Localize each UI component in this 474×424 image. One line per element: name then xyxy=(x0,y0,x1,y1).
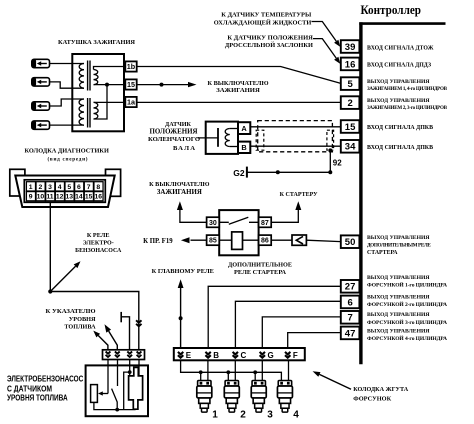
junction dot shield/G2 xyxy=(328,170,332,174)
relay pin 87 xyxy=(259,217,272,227)
wire: pin A to controller pin 15 xyxy=(250,126,340,128)
injector 3 xyxy=(251,381,266,413)
svg-text:КОЛЕНЧАТОГО: КОЛЕНЧАТОГО xyxy=(148,136,200,143)
sensor core xyxy=(217,128,219,147)
svg-text:3: 3 xyxy=(267,410,273,421)
svg-text:ДОПОЛНИТЕЛЬНОЕ: ДОПОЛНИТЕЛЬНОЕ xyxy=(228,261,292,268)
svg-text:ЗАЖИГАНИЯ: ЗАЖИГАНИЯ xyxy=(216,87,260,94)
wire: pump pin 3 down xyxy=(129,360,131,376)
svg-text:УРОВНЯ ТОПЛИВА: УРОВНЯ ТОПЛИВА xyxy=(7,394,68,403)
svg-text:ЗАЖИГАНИЯ: ЗАЖИГАНИЯ xyxy=(157,189,202,196)
wire: resistor bottom to common xyxy=(94,402,136,409)
coil T1 core 2 xyxy=(88,98,90,128)
svg-text:ДАТЧИК: ДАТЧИК xyxy=(165,122,192,128)
ground G2 bar xyxy=(246,167,248,178)
svg-text:ЭЛЕКТРОБЕНЗОНАСОС: ЭЛЕКТРОБЕНЗОНАСОС xyxy=(7,375,84,384)
label: выход управления дополнительным реле стартера (pin 50) xyxy=(367,235,431,256)
svg-text:8: 8 xyxy=(96,184,100,191)
svg-text:87: 87 xyxy=(261,220,269,227)
spark plug 1 xyxy=(32,59,50,67)
wire: sensor coil to pin A xyxy=(230,128,238,130)
wire: secondary 2 top to pin 1a xyxy=(94,101,126,103)
rail terminal B xyxy=(205,351,219,360)
wire: terminal bar to pump connector xyxy=(121,317,129,350)
diagnostic pin 6 xyxy=(75,182,84,191)
svg-text:11: 11 xyxy=(46,194,53,201)
injector 4 xyxy=(277,381,292,413)
wire: secondary 1 bottom to pin 15 xyxy=(94,84,126,86)
svg-text:К ПР. F19: К ПР. F19 xyxy=(143,238,173,245)
wire: controller pin 6 to rail C xyxy=(235,301,340,348)
spark plug 4 xyxy=(32,121,50,129)
svg-text:86: 86 xyxy=(261,238,269,245)
pump connector chevron 4 xyxy=(137,352,142,358)
svg-text:C: C xyxy=(241,351,247,360)
svg-text:12: 12 xyxy=(56,194,64,201)
junction dot on main relay wire xyxy=(179,316,183,320)
diagnostic connector pin grid frame xyxy=(24,180,105,203)
rail terminal C xyxy=(233,351,247,360)
svg-text:7: 7 xyxy=(347,313,352,324)
arrowhead up to starter xyxy=(295,201,301,210)
controller pin 7 xyxy=(341,311,360,324)
label: к реле электробензонасоса xyxy=(75,232,122,254)
controller pin 50 xyxy=(341,235,360,248)
svg-text:A: A xyxy=(241,124,247,133)
svg-text:ФОРСУНКОЙ 4-го ЦИЛИНДРА: ФОРСУНКОЙ 4-го ЦИЛИНДРА xyxy=(367,334,447,342)
svg-text:ВХОД СИГНАЛА ДПДЗ: ВХОД СИГНАЛА ДПДЗ xyxy=(367,63,431,69)
fuel pump module box xyxy=(86,365,148,416)
wire: relay pin 86 to connector xyxy=(271,239,292,241)
arrow: fuel gauge wire 2 xyxy=(105,324,118,350)
junction dot on 15 wire xyxy=(160,83,164,87)
svg-text:ВХОД СИГНАЛА ДПКВ: ВХОД СИГНАЛА ДПКВ xyxy=(367,125,433,131)
wire: junction to fuel pump connector xyxy=(50,292,139,350)
svg-text:1b: 1b xyxy=(127,62,136,71)
wire: diagnostic pin 11 down to junction xyxy=(49,202,51,291)
svg-text:СТАРТЕРА: СТАРТЕРА xyxy=(367,250,398,256)
svg-text:6: 6 xyxy=(347,297,352,308)
label: к датчику температуры охлаждающей жидкости xyxy=(214,11,312,26)
svg-text:5: 5 xyxy=(347,79,353,90)
label: выход управления зажиганием 1,4 (pin 5) xyxy=(367,79,448,92)
junction dot pump feed xyxy=(128,370,132,374)
coil T1 secondary winding 2 xyxy=(94,102,99,119)
wire: plug 2 to primary winding 1 xyxy=(50,82,85,88)
shield end cap left (dashed) xyxy=(256,130,264,150)
relay pin 86 xyxy=(259,235,272,245)
level sensor resistor R xyxy=(91,385,98,403)
starter relay K1 box xyxy=(219,210,258,255)
coil T1 core 1 xyxy=(88,61,90,91)
arrowhead to F19 xyxy=(181,237,190,243)
diagnostic connector XS1 left ear xyxy=(10,169,25,196)
svg-text:3: 3 xyxy=(48,184,52,191)
svg-text:ВЫХОД УПРАВЛЕНИЯ: ВЫХОД УПРАВЛЕНИЯ xyxy=(367,79,430,85)
sensor lead stub xyxy=(198,137,219,139)
svg-text:E: E xyxy=(186,351,192,360)
svg-text:7: 7 xyxy=(87,184,91,191)
svg-text:G: G xyxy=(268,351,274,360)
arrowhead up to ignition switch xyxy=(177,201,183,210)
sensor pin A xyxy=(238,122,250,134)
arrow: fuel gauge wire 1 xyxy=(93,331,108,350)
controller U1 top boundary line xyxy=(359,22,445,25)
ignition coil box xyxy=(72,54,124,131)
svg-text:ПОЛОЖЕНИЯ: ПОЛОЖЕНИЯ xyxy=(150,128,198,135)
svg-text:ВЫХОД УПРАВЛЕНИЯ: ВЫХОД УПРАВЛЕНИЯ xyxy=(367,275,430,281)
svg-text:ФОРСУНКОЙ 3-го ЦИЛИНДРА: ФОРСУНКОЙ 3-го ЦИЛИНДРА xyxy=(367,318,447,326)
wire: bus to injector 2 left pin xyxy=(227,372,229,381)
controller pin 15 xyxy=(341,120,360,133)
spark plug 3 xyxy=(32,102,50,110)
svg-text:К УКАЗАТЕЛЮ: К УКАЗАТЕЛЮ xyxy=(46,308,96,315)
svg-text:1: 1 xyxy=(212,410,218,421)
coil pin 15 xyxy=(125,79,136,89)
svg-text:ВЫХОД УПРАВЛЕНИЯ: ВЫХОД УПРАВЛЕНИЯ xyxy=(367,312,430,318)
diagnostic pin 7 xyxy=(84,182,93,191)
label: выход управления зажиганием 2,3 (pin 2) xyxy=(367,98,448,111)
svg-text:ДРОССЕЛЬНОЙ ЗАСЛОНКИ: ДРОССЕЛЬНОЙ ЗАСЛОНКИ xyxy=(225,41,313,49)
wire: rail C to injector 2 right pin xyxy=(234,360,236,381)
arrowhead to fuel pump relay xyxy=(74,261,81,268)
svg-text:С ДАТЧИКОМ: С ДАТЧИКОМ xyxy=(7,385,52,394)
svg-text:ЭЛЕКТРО-: ЭЛЕКТРО- xyxy=(83,241,114,247)
rail terminal E xyxy=(178,351,192,360)
controller pin 2 xyxy=(341,96,360,109)
svg-text:ВЫХОД УПРАВЛЕНИЯ: ВЫХОД УПРАВЛЕНИЯ xyxy=(367,294,430,300)
label: к выключателю зажигания (top) xyxy=(208,80,269,94)
diagnostic pin 2 xyxy=(36,182,45,191)
svg-text:15: 15 xyxy=(85,194,93,201)
wire: rail G to injector 3 right pin xyxy=(261,360,263,381)
label: выход управления форсункой 4-го цилиндра (pin 47) xyxy=(367,329,447,343)
svg-text:РЕЛЕ СТАРТЕРА: РЕЛЕ СТАРТЕРА xyxy=(234,269,286,276)
label: выход управления форсункой 1-го цилиндра (pin 27) xyxy=(367,275,447,289)
svg-text:УРОВНЯ: УРОВНЯ xyxy=(69,316,96,323)
diagnostic pin 8 xyxy=(94,182,103,191)
svg-text:ФОРСУНОК: ФОРСУНОК xyxy=(353,395,391,402)
controller pin 16 xyxy=(341,58,360,71)
svg-text:БЕНЗОНАСОСА: БЕНЗОНАСОСА xyxy=(75,248,122,254)
svg-text:ВХОД СИГНАЛА ДПКВ: ВХОД СИГНАЛА ДПКВ xyxy=(367,145,433,151)
wire: rail E common bus xyxy=(181,360,282,381)
svg-text:15: 15 xyxy=(345,122,356,133)
svg-text:Контроллер: Контроллер xyxy=(361,3,422,17)
coil T1 primary winding 1 xyxy=(79,64,84,89)
svg-text:14: 14 xyxy=(75,194,83,201)
relay contact 30-87 xyxy=(219,217,258,224)
svg-text:ВЫХОД УПРАВЛЕНИЯ: ВЫХОД УПРАВЛЕНИЯ xyxy=(367,98,430,104)
svg-text:B: B xyxy=(241,143,246,152)
svg-text:ВЫХОД УПРАВЛЕНИЯ: ВЫХОД УПРАВЛЕНИЯ xyxy=(367,235,430,241)
svg-text:ОХЛАЖДАЮЩЕЙ ЖИДКОСТИ: ОХЛАЖДАЮЩЕЙ ЖИДКОСТИ xyxy=(214,18,312,26)
junction dot common xyxy=(115,408,119,412)
svg-text:ДОПОЛНИТЕЛЬНЫМ РЕЛЕ: ДОПОЛНИТЕЛЬНЫМ РЕЛЕ xyxy=(367,243,431,249)
junction dot shield drain xyxy=(328,148,332,152)
svg-text:ВАЛА: ВАЛА xyxy=(173,145,195,152)
diagnostic pin 12 xyxy=(55,192,64,201)
svg-text:13: 13 xyxy=(66,194,74,201)
svg-text:G2: G2 xyxy=(233,168,245,178)
coil T1 secondary winding 1 xyxy=(94,70,99,85)
inline connector symbol xyxy=(292,235,306,245)
svg-text:6: 6 xyxy=(77,184,81,191)
wire: relay pin 87 to starter xyxy=(271,209,298,223)
svg-text:92: 92 xyxy=(333,159,342,168)
svg-text:К ГЛАВНОМУ РЕЛЕ: К ГЛАВНОМУ РЕЛЕ xyxy=(152,268,214,275)
diagnostic pin 3 xyxy=(46,182,55,191)
diagnostic pin 9 xyxy=(26,192,35,201)
relay pin 85 xyxy=(207,235,220,245)
crankshaft sensor B1 box xyxy=(206,122,238,154)
label: колодка жгута форсунок xyxy=(353,387,409,403)
wire: coil 15 to ignition switch xyxy=(137,84,189,86)
label: выход управления форсункой 2-го цилиндра (pin 6) xyxy=(367,294,447,308)
diagnostic pin 10 xyxy=(36,192,45,201)
svg-text:85: 85 xyxy=(209,238,217,245)
diagnostic pin 14 xyxy=(75,192,84,201)
injector 1 xyxy=(197,381,212,413)
wire: rail B to injector 1 right pin xyxy=(207,360,209,381)
wire: shield drain to ground G2 xyxy=(329,150,331,172)
wire: plug 1 to primary winding 1 xyxy=(50,63,85,65)
diagnostic pin 16 xyxy=(94,192,103,201)
wire: pump pin 2 to switch xyxy=(117,360,119,387)
controller pin 39 xyxy=(341,40,360,53)
label: к указателю уровня топлива xyxy=(46,308,97,331)
svg-text:27: 27 xyxy=(345,282,356,293)
open terminal bar (fuel gauge sender) xyxy=(120,312,122,322)
svg-text:ФОРСУНКОЙ 2-го ЦИЛИНДРА: ФОРСУНКОЙ 2-го ЦИЛИНДРА xyxy=(367,300,447,308)
wire: coolant sensor label to pin 39 xyxy=(312,22,337,42)
wire: pump pin 1 into module xyxy=(107,360,109,394)
wire: controller pin 7 to rail G xyxy=(262,317,341,348)
label: выход управления форсункой 3-го цилиндра (pin 7) xyxy=(367,312,447,326)
svg-text:50: 50 xyxy=(345,237,356,248)
junction dot diagnostic/fuel-pump node xyxy=(48,289,52,293)
controller U1 left boundary line xyxy=(359,22,362,364)
diagnostic pin 4 xyxy=(55,182,64,191)
coil pin 1b xyxy=(125,61,136,71)
svg-text:1a: 1a xyxy=(127,98,136,107)
wire: pump pin 4 down xyxy=(138,360,140,376)
label: датчик положения коленчатого вала xyxy=(148,122,200,152)
coil pin 1a xyxy=(125,97,136,107)
controller pin 5 xyxy=(341,77,360,90)
injector 2 xyxy=(224,381,239,413)
svg-text:К ВЫКЛЮЧАТЕЛЮ: К ВЫКЛЮЧАТЕЛЮ xyxy=(149,181,209,188)
wire: relay pin 30 to ignition switch xyxy=(180,209,207,223)
rail terminal G xyxy=(260,351,274,360)
spark plug 2 xyxy=(32,78,50,86)
svg-text:(вид спереди): (вид спереди) xyxy=(48,156,88,163)
svg-text:30: 30 xyxy=(209,220,217,227)
svg-text:ФОРСУНКОЙ 1-го ЦИЛИНДРА: ФОРСУНКОЙ 1-го ЦИЛИНДРА xyxy=(367,281,447,289)
svg-text:16: 16 xyxy=(94,194,102,201)
junction dot injector 3 feed xyxy=(253,370,257,374)
wire: junction to fuel pump relay xyxy=(50,266,75,291)
svg-text:15: 15 xyxy=(127,80,135,89)
svg-text:2: 2 xyxy=(347,98,352,109)
pump connector chevron 3 xyxy=(127,352,132,358)
wire: coil 1b to controller pin 5 xyxy=(137,67,341,84)
diagnostic connector XS1 body xyxy=(15,176,114,208)
svg-text:F: F xyxy=(293,351,298,360)
svg-text:1: 1 xyxy=(29,184,33,191)
injector harness connector strip xyxy=(174,348,305,360)
controller pin 47 xyxy=(341,327,360,340)
svg-text:5: 5 xyxy=(67,184,71,191)
wire: secondary 2 bottom to junction xyxy=(94,85,108,119)
relay pin 30 xyxy=(207,217,220,227)
arrowhead up to main relay xyxy=(178,279,184,288)
svg-text:B: B xyxy=(213,351,219,360)
wire: sensor coil to pin B xyxy=(230,146,238,148)
svg-text:К РЕЛЕ: К РЕЛЕ xyxy=(87,232,110,239)
wire: plug 4 to primary winding 2 xyxy=(50,124,85,126)
wire: relay pin 85 to F19 xyxy=(191,239,207,241)
pump connector chevron 1 xyxy=(106,352,111,358)
label: дополнительное реле стартера xyxy=(228,261,292,276)
diagnostic pin 11 xyxy=(46,192,55,201)
wire: coil 1a to controller pin 2 xyxy=(137,101,341,103)
sensor coil winding xyxy=(225,129,230,147)
controller pin 6 xyxy=(341,296,360,309)
rail terminal F xyxy=(285,351,298,360)
junction dot on G2 wire xyxy=(276,170,280,174)
svg-text:16: 16 xyxy=(345,59,356,70)
svg-text:К ДАТЧИКУ ПОЛОЖЕНИЯ: К ДАТЧИКУ ПОЛОЖЕНИЯ xyxy=(227,34,313,41)
svg-text:ВХОД СИГНАЛА ДТОЖ: ВХОД СИГНАЛА ДТОЖ xyxy=(367,45,434,51)
diagnostic connector XS1 right ear xyxy=(106,169,121,196)
label: к датчику положения дроссельной заслонки xyxy=(225,34,313,49)
svg-text:К СТАРТЕРУ: К СТАРТЕРУ xyxy=(280,192,319,198)
wire: main relay to injector rail E xyxy=(180,287,182,350)
label: к выключателю зажигания (lower) xyxy=(149,181,209,196)
svg-text:9: 9 xyxy=(29,194,33,201)
diagnostic pin 15 xyxy=(84,192,93,201)
fuel pump motor M xyxy=(129,367,143,409)
svg-text:47: 47 xyxy=(345,328,356,339)
wire: pump feed to common xyxy=(124,372,130,410)
wire: bus to injector 3 left pin xyxy=(254,372,256,381)
pump connector chevron 2 xyxy=(115,352,120,358)
wire: G2 to shield xyxy=(247,171,330,173)
svg-text:34: 34 xyxy=(345,142,356,153)
svg-text:4: 4 xyxy=(293,410,299,421)
controller pin 34 xyxy=(341,140,360,153)
fuel pump connector strip xyxy=(103,350,145,360)
wire: connector to controller pin 50 xyxy=(306,240,340,241)
wire: controller pin 47 to rail F xyxy=(288,333,341,348)
arrowhead into pin 16 xyxy=(334,57,340,64)
svg-text:4: 4 xyxy=(58,184,62,191)
wire: bus to injector 1 left pin xyxy=(200,372,202,381)
svg-text:39: 39 xyxy=(345,42,356,53)
junction dot injector 1 feed xyxy=(199,370,203,374)
diagnostic pin 13 xyxy=(65,192,74,201)
label: электробензонасос с датчиком уровня топлива xyxy=(7,375,84,403)
sensor pin B xyxy=(238,142,250,153)
svg-text:ЗАЖИГАНИЕМ 1, 4-го ЦИЛИНДРОВ: ЗАЖИГАНИЕМ 1, 4-го ЦИЛИНДРОВ xyxy=(367,86,448,92)
svg-text:2: 2 xyxy=(240,410,246,421)
svg-text:ТОПЛИВА: ТОПЛИВА xyxy=(64,325,96,331)
svg-text:ВЫХОД УПРАВЛЕНИЯ: ВЫХОД УПРАВЛЕНИЯ xyxy=(367,329,430,335)
relay coil winding xyxy=(219,232,258,250)
coil T1 primary winding 2 xyxy=(79,99,84,125)
shielded cable outline (dashed) xyxy=(258,121,333,152)
controller pin 27 xyxy=(341,280,360,293)
label: колодка диагностики (вид спереди) xyxy=(24,148,108,163)
svg-text:КОЛОДКА ЖГУТА: КОЛОДКА ЖГУТА xyxy=(353,387,409,393)
wire: secondary 1 top to pin 1b xyxy=(94,67,126,70)
junction dot injector 2 feed xyxy=(226,370,230,374)
wire: plug 3 to primary winding 2 xyxy=(50,99,85,106)
svg-text:К ВЫКЛЮЧАТЕЛЮ: К ВЫКЛЮЧАТЕЛЮ xyxy=(208,80,269,87)
svg-text:К ДАТЧИКУ ТЕМПЕРАТУРЫ: К ДАТЧИКУ ТЕМПЕРАТУРЫ xyxy=(221,11,312,18)
shield end cap right (dashed) xyxy=(327,130,334,150)
svg-text:ЗАЖИГАНИЕМ 2, 3-го ЦИЛИНДРОВ: ЗАЖИГАНИЕМ 2, 3-го ЦИЛИНДРОВ xyxy=(367,105,448,111)
wire: throttle sensor label to pin 16 xyxy=(313,39,336,59)
svg-text:КОЛОДКА ДИАГНОСТИКИ: КОЛОДКА ДИАГНОСТИКИ xyxy=(24,148,108,155)
arrowhead into pin 39 xyxy=(334,40,340,47)
fuel level switch blade xyxy=(112,389,118,410)
diagnostic pin 5 xyxy=(65,182,74,191)
wire: rail F to injector 4 right pin xyxy=(288,360,290,381)
svg-text:КАТУШКА ЗАЖИГАНИЯ: КАТУШКА ЗАЖИГАНИЯ xyxy=(58,39,135,46)
wire: controller pin 27 to rail B xyxy=(208,286,341,348)
arrowhead to ignition switch xyxy=(188,82,197,87)
wire: pin B to controller pin 34 xyxy=(250,145,340,147)
diagnostic pin 1 xyxy=(26,182,35,191)
chevron on fuel pump feed wire xyxy=(136,320,141,326)
svg-text:10: 10 xyxy=(37,194,45,201)
svg-text:2: 2 xyxy=(38,184,42,191)
junction dot secondaries xyxy=(105,83,109,87)
level sensor wiper arrow xyxy=(98,391,108,395)
arrow to injector harness connector xyxy=(313,371,351,389)
